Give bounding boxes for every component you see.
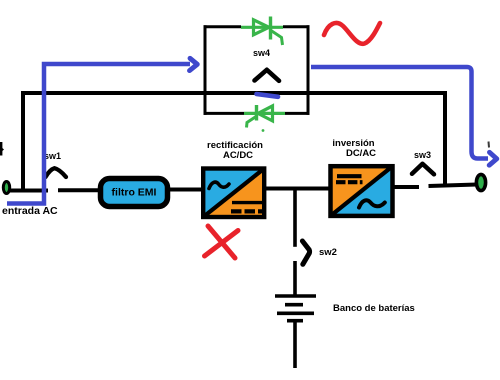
stray mark small dash right xyxy=(488,142,491,148)
svg-text:sw1: sw1 xyxy=(44,151,61,161)
arrowhead blue to output xyxy=(489,152,497,165)
svg-text:DC/AC: DC/AC xyxy=(346,148,376,159)
connector output green xyxy=(476,174,485,190)
switch sw1 arm xyxy=(46,168,67,177)
stray mark left edge xyxy=(0,142,2,156)
wire battery bottom lead xyxy=(293,322,297,368)
wire sw3 to output connector xyxy=(429,185,478,187)
svg-text:entrada AC: entrada AC xyxy=(2,205,58,217)
switch sw2 arc xyxy=(302,241,309,264)
svg-text:AC/DC: AC/DC xyxy=(223,150,253,161)
red X fault mark xyxy=(205,226,239,258)
wire bypass black top rail xyxy=(23,93,445,189)
switch sw3 arm xyxy=(412,164,434,175)
svg-text:sw3: sw3 xyxy=(414,150,431,160)
svg-text:Banco de baterías: Banco de baterías xyxy=(333,303,415,314)
inverter U2 DC/AC box xyxy=(331,166,393,216)
node junction to battery xyxy=(293,188,297,247)
wire sw2 to battery xyxy=(293,261,297,295)
bypass box sw4 frame xyxy=(204,25,310,115)
wire sw1 to filtro EMI xyxy=(58,188,101,192)
rectifier U1 AC/DC converter box xyxy=(203,169,264,218)
svg-text:sw2: sw2 xyxy=(319,247,337,258)
wire inverter to sw3 xyxy=(392,185,419,189)
wire blue dash across sw4 bottom xyxy=(257,94,279,97)
wire blue bypass output path xyxy=(311,67,488,159)
thyristor D2 bottom (green SCR) xyxy=(244,105,285,132)
thyristor D1 top (green SCR) xyxy=(241,17,283,46)
filtro EMI box xyxy=(101,179,168,207)
wire filtro EMI to rectifier xyxy=(169,188,204,192)
switch sw4 arm chevron xyxy=(255,70,280,81)
svg-text:sw4: sw4 xyxy=(253,48,270,58)
wire main AC line left segment xyxy=(8,189,48,193)
connector input green xyxy=(3,182,9,194)
svg-text:filtro EMI: filtro EMI xyxy=(112,187,157,199)
wire rectifier to inverter xyxy=(264,187,330,191)
battery Banco de baterias plates xyxy=(275,294,316,298)
red AC sine squiggle xyxy=(324,23,380,44)
wire blue feed path (input to bypass) xyxy=(7,64,190,204)
arrowhead blue into sw4 xyxy=(190,58,198,70)
